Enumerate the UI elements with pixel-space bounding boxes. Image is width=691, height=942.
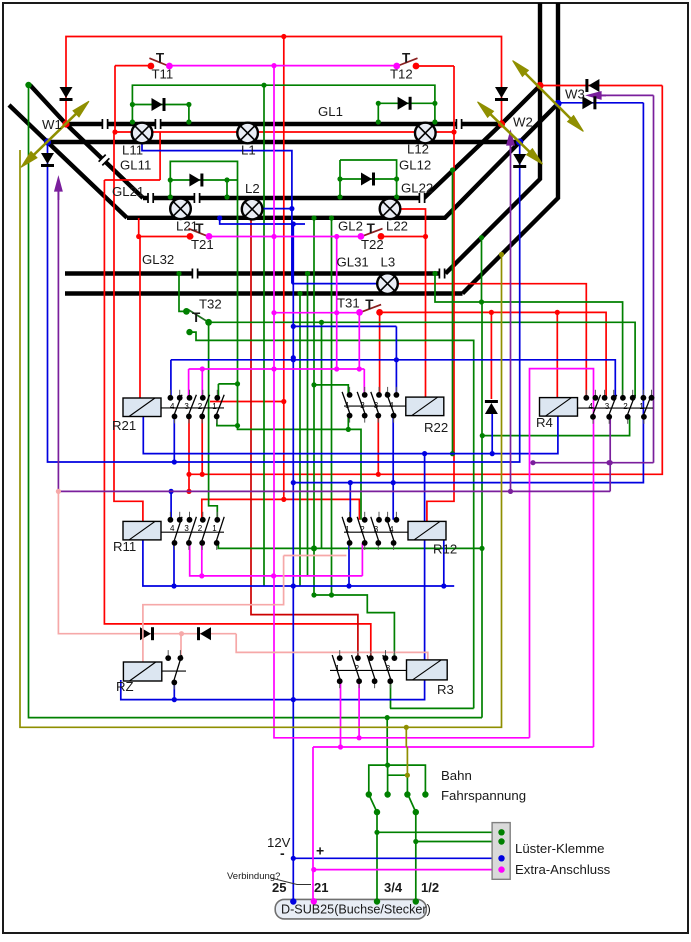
wire magenta R3 contact2 bottom drop [358,681,360,738]
wire magenta R11 contact2 bottom drop [201,543,203,576]
wire green diagonal tap [481,238,483,302]
pin 21 [311,898,317,904]
wire green link to R22 contact1 top [314,385,348,395]
wire red left staircase to R3 contact 3 [104,180,370,658]
node green GL1 right [432,101,437,106]
svg-text:2: 2 [198,402,203,411]
diode W2 blue drop [513,154,526,167]
track 2 rail B [127,142,520,218]
svg-text:L11: L11 [122,143,143,158]
diode GL2 right [361,173,374,186]
route arrow W2 [478,102,543,164]
wire pink to RZ coil top [143,556,284,663]
svg-text:3: 3 [374,401,379,410]
wire green to Luester-Klemme 1 [377,831,502,833]
contact group R21 contacts [161,390,224,424]
wire green far left track power loop [29,85,483,718]
wire blue drop to R21 contact4 top [170,360,172,398]
wire magenta to D-SUB pin 21 [312,747,314,901]
wire red T12 out [416,65,454,67]
wire red R11-R12 contact feed row [202,499,360,519]
contact group R4 contacts [578,390,655,424]
wire green selector top loop [369,765,426,791]
wire green GL2 right diode branch [340,178,397,180]
diode pink left [140,627,153,640]
wire red T12 drop to R12 coil [427,66,454,521]
wire red W3 out [540,85,662,87]
wire darkred L2 lamp drop to R3 contact [251,218,358,658]
wire purple W2 drop [510,134,512,491]
svg-text:GL1: GL1 [318,104,343,119]
svg-text:3: 3 [184,402,189,411]
wire green GL1 diode branch right [378,103,435,123]
track diagonal W2-W3 lower [520,104,558,143]
svg-text:1: 1 [212,402,217,411]
svg-text:3: 3 [374,525,379,534]
lamp L11 [132,123,153,144]
track 3 rail A (GL32/GL31) [65,271,446,275]
wire blue row 326 [293,325,396,327]
svg-text:2: 2 [623,402,628,411]
pin 3/4 [374,898,380,904]
wire green T32 drop to R11 contact1 [209,322,218,520]
wire blue W3 long loop [293,103,643,483]
wire red R21 contact link [210,401,284,403]
wire green selector B to pin 1/2 [415,812,417,901]
wire blue R12 contact1 bottom drop [348,543,350,586]
lamp L21 [170,199,191,220]
svg-text:1: 1 [335,664,340,673]
wire green track2 diagonal drop [452,170,454,454]
wire blue RZ coil to R3 coil and coil-minus column [121,454,425,700]
wire magenta T31 drop [358,313,360,369]
diode GL1 right [398,97,411,110]
track main line upper rail W1-W2 (GL1) [30,85,143,198]
contact group R11 contacts [161,512,224,550]
wire green staircase to R3 contact [313,595,394,658]
track vertical W3 line 1 [446,3,541,274]
wire magenta drop R21 contact2 [201,369,203,398]
node W1 red [62,120,69,127]
wire red W3 right side long loop [189,86,662,475]
svg-text:R3: R3 [437,682,454,697]
selector lever A [370,797,377,812]
svg-text:D-SUB25(Buchse/Stecker): D-SUB25(Buchse/Stecker) [281,903,431,917]
svg-text:25: 25 [272,880,286,895]
node red top feed [281,34,286,39]
relay coil R12 [408,521,446,540]
wire green bottom row R3 [390,707,474,709]
svg-text:Extra-Anschluss: Extra-Anschluss [515,862,611,877]
wire magenta row 369 [189,368,365,370]
wire purple R4 contact3 bottom to row [609,416,611,491]
relay coil R21 [123,398,161,417]
node W1 blue [44,138,51,145]
track main line lower rail W1-W2 [9,105,127,218]
svg-text:L3: L3 [381,255,396,270]
track separator diag W1 [99,155,110,166]
wire blue center column to D-SUB pin 25 [292,224,294,902]
Luester-Klemme terminal block [492,823,510,880]
wire red R22 contact3 bottom drop [377,416,379,475]
wire green bundle drop 314 [313,218,315,595]
diode pink right [199,627,212,640]
wire pink RZ diode row [58,491,236,633]
node green selector feed [385,715,390,720]
svg-text:T: T [192,310,201,325]
track 3 rail B [65,291,463,295]
wire green GL2 right loop left [339,160,341,198]
diode W3 blue [582,96,595,109]
svg-text:L1: L1 [241,143,256,158]
wire green bundle drop 321 [321,322,323,548]
wire red to diode above [490,312,492,399]
node green GL1 left [186,102,191,107]
wire green GL2 right loop top [340,160,397,198]
arrow purple W3 [587,92,606,100]
wire green row 340 to bottom loop [190,332,474,708]
node W2 blue [516,138,523,145]
wire olive selector feed [406,747,408,775]
contact group RZ contact [162,650,186,689]
svg-text:2: 2 [360,525,365,534]
wire green R22 contact1 bottom stub [347,418,349,430]
relay coil R3 [407,660,448,680]
wire red T22 to R22 coil top [425,237,427,399]
svg-text:12V: 12V [267,835,291,850]
svg-text:4: 4 [170,402,175,411]
track vertical W3 line 2 [463,3,559,294]
wire blue R12 coil drop [443,539,445,586]
svg-text:T: T [402,51,411,66]
wire blue drop R12 contact1 [349,482,351,520]
wire green row to R4 contact2 bottom [482,416,629,435]
svg-text:1: 1 [345,401,350,410]
svg-text:3/4: 3/4 [384,880,403,895]
wire green rail3A to R4 contact2 top [435,274,623,398]
wire blue diode to coil line [491,412,493,454]
diode W2 red feed [495,87,508,100]
svg-text:L2: L2 [245,181,260,196]
svg-text:GL21: GL21 [112,184,144,199]
svg-text:Lüster-Klemme: Lüster-Klemme [515,841,604,856]
svg-text:T: T [365,297,374,312]
svg-text:4: 4 [389,525,394,534]
wire blue R11 contact4 bottom drop [173,543,175,586]
node W2 red [498,120,505,127]
wire green rail3A to T32 [179,274,186,312]
svg-text:T11: T11 [152,67,174,82]
wire green long drop right of center [481,302,483,718]
wire green R3 contact4 bottom drop [390,681,392,708]
wire blue row 360 to R4 contact3 top [171,360,615,398]
relay coil RZ [123,662,161,681]
wire green selector A to pin 3/4 [376,812,378,901]
contact group R3 contacts [330,650,407,688]
wire red R21 contact2 bottom drop [201,416,203,474]
svg-text:4: 4 [589,402,594,411]
svg-text:R21: R21 [112,418,136,433]
diode R21 coil line [485,402,498,415]
node red T21 left [136,234,141,239]
svg-text:L22: L22 [386,219,408,234]
wire magenta bottom row plus [313,746,594,748]
wire magenta R11 contacts row [190,543,363,576]
svg-text:2: 2 [360,401,365,410]
lamp L22 [380,199,401,220]
wire olive selector feed upper [405,727,407,747]
svg-text:R4: R4 [536,415,553,430]
selector lever B [409,797,416,812]
wire blue R11 coil row [143,539,454,586]
D-SUB25 connector [275,899,426,919]
track separator GL32 [192,269,197,279]
diode W3 red [587,79,600,92]
lamp L1 [237,123,258,144]
wire blue R21 coil to R4 coil [143,416,558,454]
switch T11 [148,58,173,69]
wire red W1 top to W2 [66,37,502,125]
svg-text:3: 3 [605,402,610,411]
switch T32 [188,310,207,322]
contact group R22 contacts [342,387,406,423]
svg-text:2: 2 [198,524,203,533]
wire red R21 contact3 bottom to purple rail [188,416,190,491]
wire blue W3 out [558,102,643,104]
wire magenta long center column [274,66,530,738]
svg-text:T31: T31 [337,296,360,311]
node red R21 contact2 bottom [200,472,205,477]
Verbindung pointer line [271,878,311,885]
node green on diagonal [479,235,484,240]
track rail GL1 top [66,122,502,126]
wire magenta drop R21 contact3 [188,369,190,398]
diode W1 red feed [60,87,73,100]
node red T31 line / diode branch [489,310,494,315]
svg-text:21: 21 [314,880,328,895]
svg-text:T: T [156,51,165,66]
wire purple W3 link [592,94,654,96]
wire blue lamp net L11-L2-L3 [142,143,292,284]
wire blue R22 contact4 bottom to R12 contact4 [392,418,394,520]
track 2 rail A (GL21/GL2/GL22) [143,124,502,198]
wire green GL2 drop to R12 contact [238,180,362,520]
wire green R21 contact1 top link [218,383,237,385]
wire magenta R12 contact2 bottom drop [361,543,363,576]
wire red L3 to R4 contact 4 top [397,284,586,398]
wire green R21 contact1 bottom link [217,416,238,425]
wire blue long W1-W2 under-loop [48,142,520,462]
wire red T31 drop to R22 contact 3 [379,312,381,395]
wire red T31 to R4 contact 3 top [380,312,606,397]
wire blue L2 tap [262,208,292,210]
svg-text:W2: W2 [513,115,533,130]
wire purple right riser [653,95,655,462]
svg-text:R12: R12 [433,542,457,557]
lamp L3 [377,273,398,294]
switch T12 [393,58,419,69]
relay coil R4 [540,398,578,417]
wire green bundle drop 307 [307,274,309,576]
track rail bottom [48,140,520,144]
wire blue L3 tap [292,283,378,285]
route arrow W3 [513,61,584,132]
arrow purple W2 [507,131,515,152]
diode GL2 left [189,174,202,187]
wire red T11 drop to lamp line [114,66,116,132]
wire green selector inner link [388,775,408,791]
svg-text:4: 4 [170,524,175,533]
wire purple row 462 [533,462,654,464]
wire green bundle drop 331 [331,218,333,595]
svg-text:W1: W1 [42,117,62,132]
wire magenta drop R22 contact2 [363,369,365,395]
svg-text:W3: W3 [565,87,585,102]
svg-text:T21: T21 [191,237,214,252]
wire green GL1 loop top [132,85,435,123]
wire red to R4 coil top [556,312,558,397]
svg-text:GL22: GL22 [401,181,433,196]
wire red T11 to drop [115,65,151,67]
svg-text:1: 1 [639,402,644,411]
wire green T32 to R4 contact1 row [209,322,635,398]
wire red T21 feed [139,236,194,238]
svg-text:L21: L21 [176,219,198,234]
arrow purple W1 [55,177,63,200]
svg-text:Fahrspannung: Fahrspannung [441,788,526,803]
wire green bundle drop 300 [299,294,301,586]
svg-text:GL12: GL12 [399,158,431,173]
wire magenta T11-T12 link [169,65,396,67]
svg-text:RZ: RZ [116,679,134,694]
wire green GL1 diode branch left [132,105,189,124]
wire magenta R4 loop [530,369,594,747]
wire red tap from lamp line [159,132,161,180]
relay coil R11 [123,521,161,540]
svg-text:+: + [316,843,324,859]
svg-text:Bahn: Bahn [441,768,472,783]
svg-text:1/2: 1/2 [421,880,439,895]
node W3 blue [554,100,561,107]
contact group R12 contacts [342,512,408,550]
svg-text:3: 3 [386,664,391,673]
svg-text:T12: T12 [390,67,413,82]
wire red center drop to R11 feed row [283,37,285,500]
wire purple W1 long row [58,181,610,491]
wire blue drop to R22 contact4 top [395,326,397,395]
diode W1 blue drop [41,153,54,166]
switch T21 [187,229,213,240]
track separator GL21 [148,193,153,203]
node red lamp line left [112,129,117,134]
wire red T21 to R21 coil top [139,237,141,399]
route arrow W1 [21,101,89,167]
switch T31 [356,305,383,316]
svg-text:R22: R22 [424,420,448,435]
svg-text:GL31: GL31 [337,255,369,270]
wire green R11 contact1 bottom row [218,543,482,549]
wire blue rail2B link [220,218,305,224]
wire pink to RZ contact top [180,634,182,658]
wire red T22 out [381,236,426,238]
wire red L22 lamp to T22 node [400,209,426,237]
wire red rail2B tap to T21 [138,218,140,237]
svg-text:R11: R11 [113,539,136,554]
wire magenta T31 feed [274,312,359,314]
wire blue purple-row tap to R11 contact4 top [170,491,172,519]
pin 1/2 [413,898,419,904]
svg-text:-: - [280,845,285,861]
wire magenta R3 contact1 bottom drop [340,681,342,747]
switch T22 [358,229,385,240]
node red T22/L22 junction [423,234,428,239]
wire olive big loop [20,150,502,727]
svg-text:T22: T22 [361,237,384,252]
node olive on diagonal [499,252,504,257]
wire red T11 line to R11 coil [114,132,143,521]
wire pink upper branch [284,555,347,557]
relay coil R22 [406,397,444,416]
svg-text:1: 1 [212,524,217,533]
wire magenta drop 336 [336,237,338,370]
svg-text:1: 1 [345,525,350,534]
wire red lamp line track1 [113,131,454,133]
track diagonal W2-W3 upper [502,86,541,125]
node red T31 line / R4 coil branch [555,310,560,315]
svg-text:T32: T32 [199,297,222,312]
svg-text:4: 4 [389,401,394,410]
lamp L12 [415,123,436,144]
wire green long drop from GL1 loop [263,85,265,586]
lamp L2 [242,199,263,220]
pin 25 [290,898,296,904]
wire pink to R3 coil top [236,634,428,662]
wire green tap to rail2A [226,180,228,198]
svg-text:L12: L12 [407,142,429,157]
node red lamp line right [451,129,456,134]
wire magenta T21-T22 link [212,236,361,238]
wire red track1 tap header [104,179,160,181]
svg-text:T: T [367,221,376,236]
wire green GL2 left diode branch [170,179,237,181]
svg-text:2: 2 [355,664,360,673]
wire magenta 12V plus to Luester-Klemme [314,869,502,871]
wire blue RZ contact bottom drop [173,682,175,699]
node W3 red [536,82,543,89]
svg-text:GL2: GL2 [338,219,363,234]
wire blue 12V minus to Luester-Klemme [293,857,501,859]
wire green to Luester-Klemme 2 [416,841,502,843]
wire green GL2 left loop top [170,161,237,198]
svg-text:GL11: GL11 [120,158,151,173]
svg-text:3: 3 [184,524,189,533]
node green row340 start [186,329,192,335]
svg-text:GL32: GL32 [142,252,174,267]
diode GL1 left [152,98,165,111]
wire green drop to selector [386,718,388,766]
wire blue R21 contact4 bottom drop [173,416,175,462]
track separator GL1 left [102,119,107,129]
